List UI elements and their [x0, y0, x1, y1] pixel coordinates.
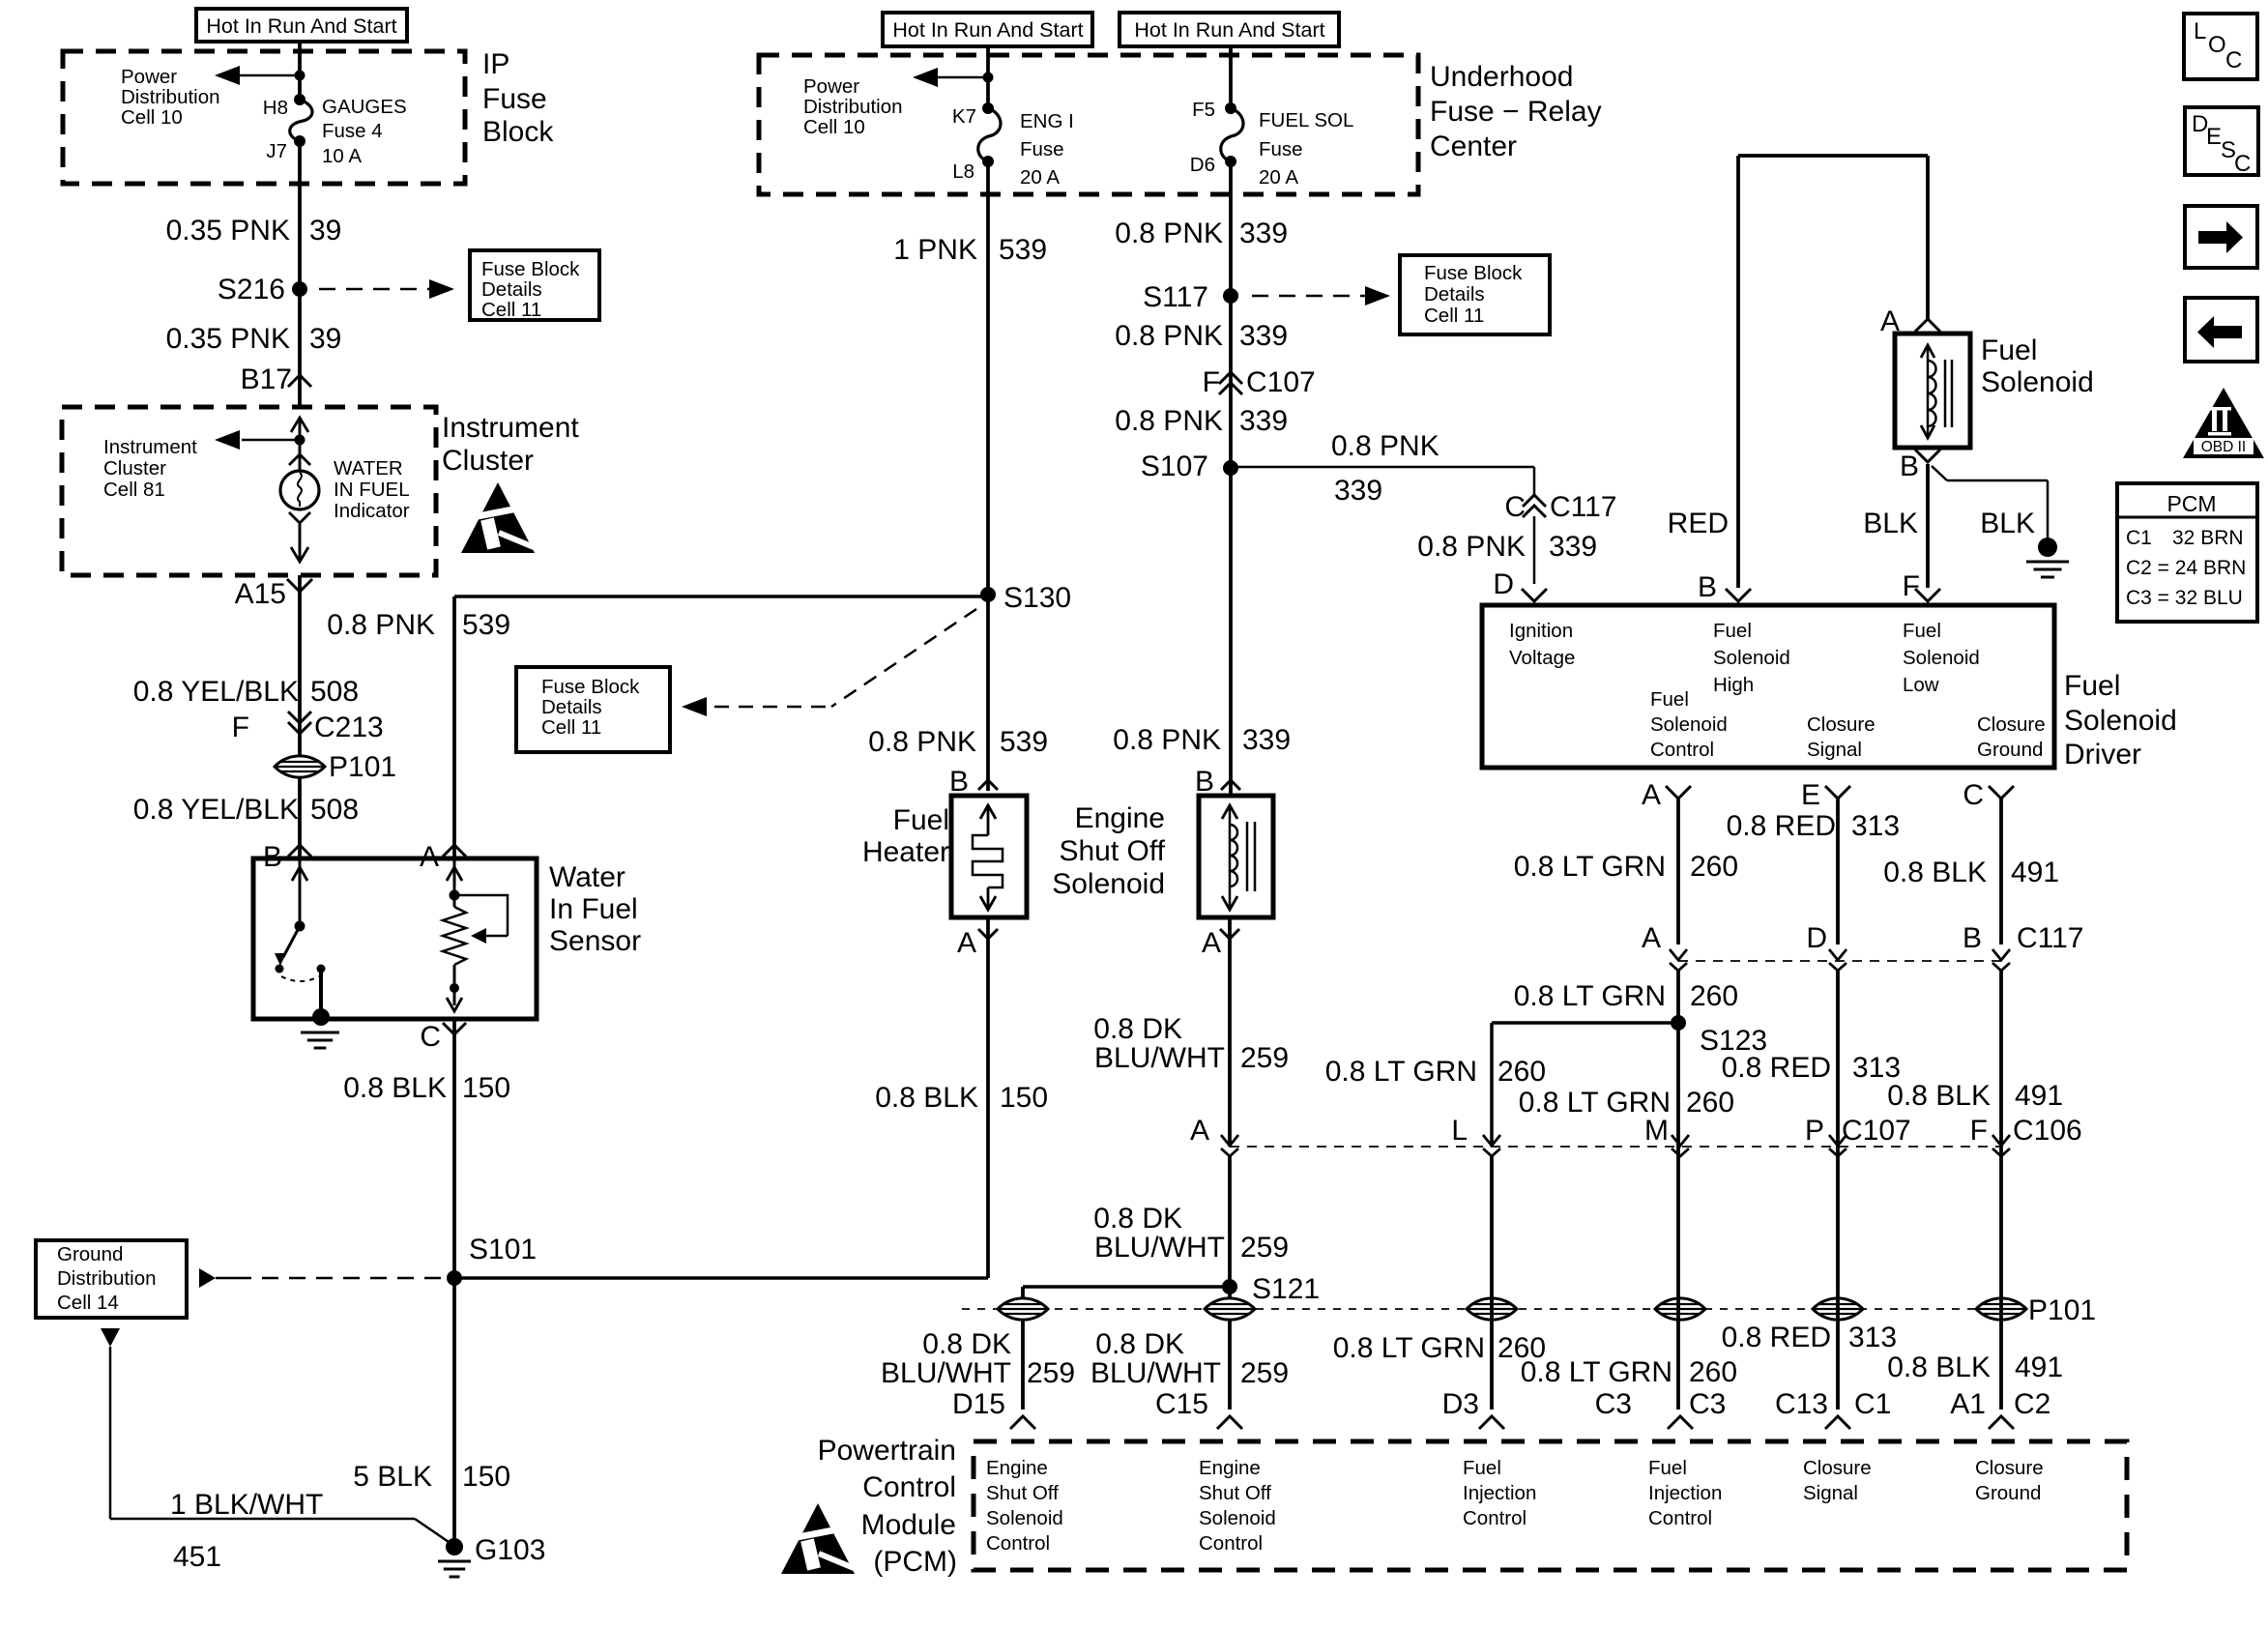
svg-text:259: 259 — [1027, 1357, 1075, 1389]
svg-text:0.8 DK: 0.8 DK — [1095, 1328, 1184, 1360]
svg-text:39: 39 — [309, 323, 341, 355]
svg-text:259: 259 — [1240, 1232, 1289, 1264]
svg-text:S101: S101 — [469, 1234, 537, 1265]
svg-text:491: 491 — [2015, 1080, 2063, 1112]
svg-text:C3: C3 — [1689, 1388, 1726, 1420]
svg-text:L8: L8 — [952, 160, 974, 183]
svg-text:BLU/WHT: BLU/WHT — [881, 1357, 1011, 1389]
svg-text:0.8 BLK: 0.8 BLK — [875, 1082, 978, 1114]
svg-text:Fuse Block: Fuse Block — [541, 676, 640, 698]
svg-text:C2 = 24 BRN: C2 = 24 BRN — [2126, 557, 2246, 579]
svg-text:BLK: BLK — [1863, 508, 1918, 539]
svg-text:IP: IP — [482, 48, 509, 80]
svg-text:339: 339 — [1239, 320, 1288, 352]
svg-text:539: 539 — [1000, 726, 1048, 758]
svg-text:G103: G103 — [475, 1534, 545, 1566]
svg-text:0.35 PNK: 0.35 PNK — [166, 323, 290, 355]
svg-text:Ground: Ground — [1977, 739, 2043, 761]
svg-text:0.8 YEL/BLK: 0.8 YEL/BLK — [133, 794, 299, 826]
svg-text:C1: C1 — [2126, 527, 2152, 549]
svg-text:Cluster: Cluster — [103, 457, 166, 480]
svg-text:0.8 LT GRN: 0.8 LT GRN — [1521, 1356, 1672, 1388]
svg-text:Fuse: Fuse — [1020, 138, 1064, 160]
svg-text:Hot In Run And Start: Hot In Run And Start — [892, 18, 1083, 42]
svg-text:S107: S107 — [1141, 451, 1208, 482]
svg-text:20 A: 20 A — [1020, 166, 1060, 189]
svg-text:Ground: Ground — [57, 1243, 123, 1265]
svg-text:B: B — [1900, 451, 1919, 482]
svg-text:0.8 LT GRN: 0.8 LT GRN — [1333, 1332, 1485, 1364]
svg-text:0.8 BLK: 0.8 BLK — [343, 1072, 447, 1104]
svg-text:Closure: Closure — [1807, 713, 1875, 736]
svg-text:0.8 PNK: 0.8 PNK — [1115, 320, 1223, 352]
svg-text:Powertrain: Powertrain — [818, 1435, 956, 1467]
svg-text:Fuse − Relay: Fuse − Relay — [1430, 96, 1602, 128]
svg-text:508: 508 — [310, 794, 359, 826]
svg-text:Closure: Closure — [1803, 1457, 1872, 1479]
svg-text:Cell 10: Cell 10 — [803, 116, 865, 138]
svg-text:F: F — [1903, 570, 1920, 602]
svg-text:Fuel: Fuel — [1463, 1457, 1501, 1479]
svg-text:D3: D3 — [1442, 1388, 1479, 1420]
svg-text:BLU/WHT: BLU/WHT — [1094, 1232, 1225, 1264]
svg-text:Cell 81: Cell 81 — [103, 479, 165, 501]
svg-text:C: C — [420, 1021, 441, 1053]
svg-text:260: 260 — [1686, 1087, 1734, 1119]
svg-text:5 BLK: 5 BLK — [353, 1461, 432, 1493]
svg-text:Ignition: Ignition — [1509, 620, 1573, 642]
svg-text:0.8 LT GRN: 0.8 LT GRN — [1514, 851, 1666, 883]
svg-text:F5: F5 — [1192, 99, 1215, 121]
svg-text:339: 339 — [1239, 218, 1288, 249]
svg-text:Details: Details — [541, 696, 602, 718]
svg-text:Engine: Engine — [1199, 1457, 1261, 1479]
svg-text:Solenoid: Solenoid — [1199, 1507, 1276, 1529]
svg-text:Voltage: Voltage — [1509, 647, 1575, 669]
svg-text:Shut Off: Shut Off — [1059, 835, 1165, 867]
svg-text:Injection: Injection — [1463, 1482, 1536, 1504]
svg-text:Distribution: Distribution — [803, 96, 903, 118]
svg-text:PCM: PCM — [2166, 491, 2216, 516]
svg-text:M: M — [1644, 1115, 1669, 1147]
svg-text:Signal: Signal — [1803, 1482, 1858, 1504]
svg-text:0.8 DK: 0.8 DK — [922, 1328, 1011, 1360]
svg-text:Fuel: Fuel — [1981, 334, 2037, 366]
svg-text:259: 259 — [1240, 1357, 1289, 1389]
svg-text:In Fuel: In Fuel — [549, 893, 638, 925]
svg-text:S130: S130 — [1003, 582, 1071, 614]
svg-text:0.8 PNK: 0.8 PNK — [868, 726, 976, 758]
svg-text:Fuse: Fuse — [482, 83, 547, 115]
svg-text:D: D — [1493, 568, 1514, 600]
svg-text:S121: S121 — [1252, 1273, 1320, 1305]
svg-text:Hot In Run And Start: Hot In Run And Start — [206, 15, 396, 38]
svg-text:Fuel: Fuel — [2064, 670, 2120, 702]
svg-text:Fuel: Fuel — [1648, 1457, 1687, 1479]
svg-text:A: A — [1202, 927, 1221, 959]
svg-text:C2: C2 — [2014, 1388, 2050, 1420]
svg-text:BLK: BLK — [1980, 508, 2035, 539]
svg-text:539: 539 — [999, 234, 1047, 266]
svg-text:P: P — [1805, 1115, 1824, 1147]
svg-text:Engine: Engine — [986, 1457, 1048, 1479]
svg-text:0.8 BLK: 0.8 BLK — [1887, 1352, 1991, 1383]
svg-text:0.8 DK: 0.8 DK — [1093, 1203, 1182, 1235]
svg-text:259: 259 — [1240, 1042, 1289, 1074]
svg-text:Control: Control — [1463, 1507, 1527, 1529]
svg-text:0.8 PNK: 0.8 PNK — [327, 609, 435, 641]
svg-text:539: 539 — [462, 609, 510, 641]
svg-text:(PCM): (PCM) — [873, 1546, 957, 1578]
svg-text:FUEL SOL: FUEL SOL — [1259, 109, 1353, 131]
svg-text:L: L — [2194, 18, 2206, 44]
svg-text:H8: H8 — [263, 97, 288, 119]
svg-text:BLU/WHT: BLU/WHT — [1090, 1357, 1221, 1389]
svg-text:Fuse Block: Fuse Block — [1424, 262, 1523, 284]
svg-text:Underhood: Underhood — [1430, 61, 1573, 93]
svg-text:F: F — [1970, 1115, 1988, 1147]
svg-text:Fuel: Fuel — [1650, 688, 1689, 711]
svg-text:Center: Center — [1430, 131, 1517, 162]
svg-text:1 BLK/WHT: 1 BLK/WHT — [170, 1489, 323, 1521]
svg-text:0.8 PNK: 0.8 PNK — [1113, 724, 1221, 756]
svg-text:Indicator: Indicator — [334, 500, 410, 522]
svg-text:C117: C117 — [2017, 922, 2084, 954]
svg-text:Hot In Run And Start: Hot In Run And Start — [1134, 18, 1324, 42]
svg-text:S216: S216 — [218, 274, 285, 305]
svg-text:D15: D15 — [952, 1388, 1005, 1420]
svg-text:Control: Control — [1648, 1507, 1712, 1529]
svg-text:Cell 14: Cell 14 — [57, 1292, 119, 1314]
svg-text:0.8 PNK: 0.8 PNK — [1115, 218, 1223, 249]
svg-text:C15: C15 — [1155, 1388, 1208, 1420]
svg-text:Distribution: Distribution — [121, 86, 220, 108]
svg-text:39: 39 — [309, 215, 341, 247]
svg-text:D: D — [1806, 922, 1827, 954]
svg-text:Cluster: Cluster — [442, 445, 534, 477]
svg-text:Fuel: Fuel — [1903, 620, 1941, 642]
svg-text:Block: Block — [482, 116, 554, 148]
svg-text:F: F — [232, 712, 249, 743]
svg-text:Low: Low — [1903, 674, 1939, 696]
svg-text:D6: D6 — [1190, 154, 1215, 176]
svg-text:10 A: 10 A — [322, 145, 362, 167]
svg-text:OBD II: OBD II — [2201, 439, 2247, 455]
svg-text:Sensor: Sensor — [549, 925, 641, 957]
svg-text:Fuel: Fuel — [893, 804, 949, 836]
svg-text:Driver: Driver — [2064, 739, 2141, 770]
svg-text:508: 508 — [310, 676, 359, 708]
svg-text:0.8 PNK: 0.8 PNK — [1115, 405, 1223, 437]
svg-text:Fuel: Fuel — [1713, 620, 1752, 642]
svg-text:WATER: WATER — [334, 457, 403, 480]
svg-text:Instrument: Instrument — [103, 436, 197, 458]
svg-text:339: 339 — [1242, 724, 1291, 756]
svg-text:Solenoid: Solenoid — [986, 1507, 1063, 1529]
svg-text:Ground: Ground — [1975, 1482, 2041, 1504]
svg-text:Control: Control — [862, 1471, 956, 1503]
svg-text:C1: C1 — [1854, 1388, 1891, 1420]
svg-text:Details: Details — [481, 278, 542, 301]
svg-text:150: 150 — [462, 1461, 510, 1493]
svg-text:Heater: Heater — [862, 836, 949, 868]
svg-text:C3 = 32 BLU: C3 = 32 BLU — [2126, 587, 2243, 609]
svg-text:O: O — [2208, 32, 2226, 58]
svg-text:Distribution: Distribution — [57, 1267, 157, 1290]
svg-text:Closure: Closure — [1975, 1457, 2044, 1479]
svg-text:451: 451 — [173, 1541, 221, 1573]
svg-text:260: 260 — [1497, 1056, 1546, 1088]
svg-text:GAUGES: GAUGES — [322, 96, 407, 118]
svg-text:0.8 PNK: 0.8 PNK — [1331, 430, 1439, 462]
svg-text:Engine: Engine — [1075, 802, 1165, 834]
svg-text:ENG I: ENG I — [1020, 110, 1074, 132]
svg-text:Power: Power — [121, 66, 177, 88]
svg-text:B: B — [1698, 571, 1717, 603]
svg-text:A: A — [1642, 779, 1661, 811]
svg-text:P101: P101 — [329, 751, 396, 783]
svg-text:C107: C107 — [1842, 1115, 1911, 1147]
svg-text:Control: Control — [1650, 739, 1714, 761]
svg-text:313: 313 — [1851, 810, 1900, 842]
svg-text:150: 150 — [1000, 1082, 1048, 1114]
svg-text:Shut Off: Shut Off — [1199, 1482, 1271, 1504]
svg-text:0.35 PNK: 0.35 PNK — [166, 215, 290, 247]
svg-text:C13: C13 — [1775, 1388, 1828, 1420]
svg-text:Cell 11: Cell 11 — [541, 716, 601, 739]
svg-text:Cell 11: Cell 11 — [481, 299, 541, 321]
svg-text:C3: C3 — [1595, 1388, 1632, 1420]
svg-text:0.8 BLK: 0.8 BLK — [1887, 1080, 1991, 1112]
svg-text:Cell 11: Cell 11 — [1424, 305, 1484, 327]
svg-text:BLU/WHT: BLU/WHT — [1094, 1042, 1225, 1074]
svg-text:313: 313 — [1848, 1322, 1897, 1353]
svg-text:A: A — [957, 927, 976, 959]
svg-text:Details: Details — [1424, 283, 1485, 305]
svg-text:A: A — [1642, 922, 1661, 954]
svg-text:20 A: 20 A — [1259, 166, 1298, 189]
svg-text:A: A — [1190, 1115, 1209, 1147]
svg-text:339: 339 — [1549, 531, 1597, 563]
svg-text:Signal: Signal — [1807, 739, 1862, 761]
svg-text:Solenoid: Solenoid — [1713, 647, 1790, 669]
svg-text:Solenoid: Solenoid — [1903, 647, 1980, 669]
svg-text:339: 339 — [1334, 475, 1382, 507]
svg-text:0.8 RED: 0.8 RED — [1722, 1052, 1831, 1084]
svg-text:C: C — [1963, 779, 1984, 811]
svg-text:C: C — [1504, 491, 1526, 523]
svg-text:32 BRN: 32 BRN — [2172, 527, 2244, 549]
svg-text:S117: S117 — [1143, 281, 1208, 313]
svg-text:Control: Control — [1199, 1532, 1263, 1555]
svg-text:C: C — [2225, 47, 2242, 73]
svg-text:Instrument: Instrument — [442, 412, 579, 444]
svg-text:Fuse 4: Fuse 4 — [322, 120, 383, 142]
svg-text:0.8 BLK: 0.8 BLK — [1883, 857, 1987, 888]
svg-text:260: 260 — [1690, 851, 1738, 883]
svg-text:150: 150 — [462, 1072, 510, 1104]
svg-text:491: 491 — [2015, 1352, 2063, 1383]
svg-text:High: High — [1713, 674, 1754, 696]
svg-text:B: B — [1963, 922, 1982, 954]
svg-text:E: E — [2206, 124, 2222, 150]
svg-text:Solenoid: Solenoid — [1650, 713, 1728, 736]
svg-text:Module: Module — [861, 1509, 956, 1541]
svg-text:Fuse Block: Fuse Block — [481, 258, 580, 280]
svg-text:P101: P101 — [2028, 1294, 2096, 1326]
svg-text:J7: J7 — [266, 140, 287, 162]
svg-text:491: 491 — [2011, 857, 2059, 888]
svg-text:260: 260 — [1689, 1356, 1737, 1388]
svg-text:Water: Water — [549, 861, 625, 893]
svg-text:B17: B17 — [241, 363, 292, 395]
svg-text:Closure: Closure — [1977, 713, 2046, 736]
svg-text:B: B — [1195, 766, 1214, 798]
svg-text:RED: RED — [1668, 508, 1729, 539]
svg-text:C: C — [2234, 151, 2251, 177]
svg-text:E: E — [1801, 779, 1820, 811]
svg-text:IN FUEL: IN FUEL — [334, 479, 410, 501]
svg-text:260: 260 — [1690, 980, 1738, 1012]
svg-text:0.8 YEL/BLK: 0.8 YEL/BLK — [133, 676, 299, 708]
svg-text:1 PNK: 1 PNK — [893, 234, 977, 266]
svg-text:0.8 LT GRN: 0.8 LT GRN — [1325, 1056, 1477, 1088]
svg-text:0.8 RED: 0.8 RED — [1722, 1322, 1831, 1353]
svg-text:C107: C107 — [1246, 366, 1316, 398]
svg-text:Solenoid: Solenoid — [2064, 705, 2177, 737]
svg-text:A15: A15 — [235, 578, 286, 610]
svg-text:Control: Control — [986, 1532, 1050, 1555]
svg-text:Fuse: Fuse — [1259, 138, 1303, 160]
svg-text:K7: K7 — [952, 105, 976, 128]
svg-text:Injection: Injection — [1648, 1482, 1722, 1504]
svg-text:0.8 RED: 0.8 RED — [1727, 810, 1836, 842]
svg-text:C117: C117 — [1550, 491, 1617, 523]
svg-text:Solenoid: Solenoid — [1981, 366, 2094, 398]
svg-text:Shut Off: Shut Off — [986, 1482, 1059, 1504]
svg-text:0.8 PNK: 0.8 PNK — [1417, 531, 1526, 563]
svg-text:0.8 LT GRN: 0.8 LT GRN — [1514, 980, 1666, 1012]
svg-text:Solenoid: Solenoid — [1052, 868, 1165, 900]
svg-text:0.8 DK: 0.8 DK — [1093, 1013, 1182, 1045]
svg-text:F: F — [1203, 366, 1220, 398]
svg-text:339: 339 — [1239, 405, 1288, 437]
svg-text:C106: C106 — [2013, 1115, 2082, 1147]
svg-text:Cell 10: Cell 10 — [121, 106, 183, 129]
svg-text:C213: C213 — [314, 712, 384, 743]
svg-text:Power: Power — [803, 75, 859, 98]
svg-text:B: B — [949, 766, 969, 798]
svg-text:A1: A1 — [1950, 1388, 1986, 1420]
svg-text:L: L — [1451, 1115, 1468, 1147]
